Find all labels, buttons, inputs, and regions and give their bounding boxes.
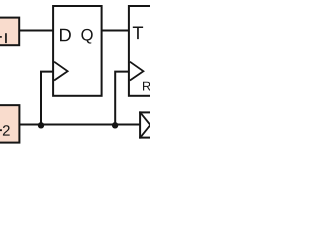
clock wire to D flip-flop: [41, 72, 53, 125]
clock bus wire: [19, 124, 140, 126]
input port box 1 (cut at left): [0, 18, 19, 46]
clock wire to T flip-flop: [115, 72, 129, 125]
D flip-flop box: [53, 6, 102, 96]
wire: box1 to D input: [19, 30, 53, 32]
output buffer top edge (cut at right): [139, 111, 152, 113]
output buffer input bar: [139, 111, 141, 138]
wire: Q output to T input: [102, 30, 129, 32]
junction dot at D clock branch: [38, 122, 44, 128]
clock triangle of D flip-flop: [54, 62, 68, 81]
clock triangle of T flip-flop: [130, 62, 144, 81]
pin label D: [60, 29, 71, 42]
label fragment -2 (cut): [0, 129, 2, 131]
output buffer bottom edge: [139, 137, 152, 139]
junction dot at T clock branch: [112, 122, 118, 128]
output buffer triangle: [141, 113, 150, 136]
input port box 2 (cut at left): [0, 105, 19, 142]
T flip-flop box (cut at right): [129, 6, 159, 96]
label fragment -I (cut): [0, 36, 2, 38]
pin label R: [143, 82, 151, 91]
pin label Q: [81, 29, 92, 44]
pin label T: [133, 27, 143, 40]
